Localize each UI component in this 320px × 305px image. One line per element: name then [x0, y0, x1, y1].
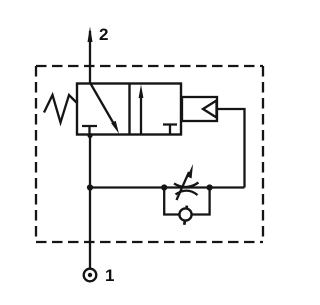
- junction node A: [161, 184, 167, 190]
- wire port 1: [89, 135, 91, 269]
- port 1 connector circle: [84, 269, 97, 282]
- spring return: [44, 95, 77, 123]
- flow path arrow 2 to 3 (left square): [91, 84, 120, 134]
- wire port 2: [89, 31, 91, 84]
- wire main horizontal: [90, 186, 245, 188]
- enclosure dashed boundary: [36, 66, 263, 242]
- flow path arrow 1 to 2 (right square): [139, 85, 144, 135]
- valve body outline U1: [77, 84, 181, 135]
- valve position divider: [128, 84, 130, 135]
- junction dot valve port 1: [87, 133, 92, 138]
- blocked port 1 symbol (left square): [82, 126, 97, 135]
- throttle restrictor arcs: [174, 183, 199, 196]
- arrowhead port 2: [88, 27, 93, 43]
- check valve seat line: [184, 206, 187, 225]
- bypass wire: [164, 188, 209, 215]
- svg-text:1: 1: [105, 266, 114, 285]
- junction node B: [207, 184, 213, 190]
- pilot wire: [217, 109, 245, 188]
- check valve ball V1: [179, 208, 191, 220]
- pilot triangle: [203, 101, 217, 118]
- pilot actuator box: [182, 97, 217, 121]
- junction node left: [87, 184, 93, 190]
- throttle adjustment arrow: [177, 164, 194, 200]
- blocked port 3 symbol (right square): [163, 125, 177, 135]
- svg-text:2: 2: [99, 25, 108, 44]
